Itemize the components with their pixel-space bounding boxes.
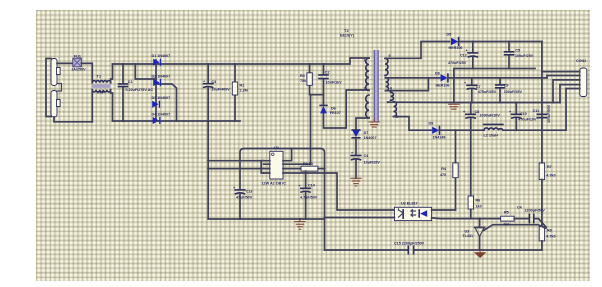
- svg-text:C7: C7: [476, 85, 481, 89]
- svg-text:470uF/25V: 470uF/25V: [478, 90, 497, 94]
- svg-text:U1: U1: [274, 145, 280, 150]
- svg-text:D7: D7: [364, 131, 369, 135]
- svg-text:R3: R3: [300, 74, 305, 78]
- svg-text:D9: D9: [429, 121, 434, 125]
- svg-text:C3: C3: [212, 80, 217, 84]
- svg-text:R7: R7: [547, 165, 552, 169]
- svg-text:EE19(Y): EE19(Y): [340, 34, 355, 38]
- svg-text:4.7uF/50V: 4.7uF/50V: [300, 196, 318, 200]
- svg-text:+: +: [509, 110, 511, 114]
- svg-text:D2 1N4007: D2 1N4007: [152, 74, 171, 78]
- svg-text:R2 10: R2 10: [303, 162, 313, 166]
- svg-text:+: +: [466, 49, 468, 53]
- svg-text:U2 EL817: U2 EL817: [401, 201, 418, 205]
- svg-text:1N4148: 1N4148: [433, 135, 446, 139]
- svg-text:+: +: [463, 110, 465, 114]
- svg-text:+: +: [203, 79, 205, 83]
- svg-text:1: 1: [364, 59, 366, 63]
- svg-text:C14: C14: [308, 183, 316, 187]
- svg-text:C5: C5: [515, 48, 520, 52]
- svg-text:+: +: [233, 186, 235, 190]
- svg-text:R6: R6: [476, 199, 481, 203]
- svg-text:1k0: 1k0: [476, 205, 482, 209]
- svg-text:100uF/25V: 100uF/25V: [515, 54, 534, 58]
- svg-text:C11: C11: [533, 109, 540, 113]
- svg-text:C9: C9: [504, 84, 509, 88]
- svg-text:TL431: TL431: [462, 234, 473, 238]
- svg-text:D6: D6: [331, 107, 336, 111]
- svg-text:10nF/1kV: 10nF/1kV: [326, 80, 343, 84]
- svg-text:10uF/25V: 10uF/25V: [364, 161, 381, 165]
- svg-text:C12: C12: [460, 54, 467, 58]
- svg-text:HER106: HER106: [436, 83, 450, 87]
- svg-text:D8: D8: [435, 71, 440, 75]
- svg-text:FR107: FR107: [330, 111, 341, 115]
- svg-text:C4: C4: [364, 154, 370, 158]
- svg-text:75k: 75k: [300, 79, 307, 83]
- svg-text:T1: T1: [96, 74, 101, 79]
- svg-text:FU1: FU1: [74, 54, 81, 58]
- svg-text:47uF/50V: 47uF/50V: [236, 196, 253, 200]
- svg-text:0.22uF/275V AC: 0.22uF/275V AC: [126, 88, 154, 92]
- svg-text:100uF/25V: 100uF/25V: [504, 90, 523, 94]
- svg-text:D1 1N4007: D1 1N4007: [152, 54, 171, 58]
- svg-text:+: +: [351, 151, 353, 155]
- svg-text:C4: C4: [517, 205, 523, 209]
- svg-text:4.7k0: 4.7k0: [546, 234, 555, 238]
- svg-text:2.2M: 2.2M: [240, 88, 248, 92]
- svg-text:1N4007: 1N4007: [364, 136, 377, 140]
- svg-text:R8: R8: [547, 228, 552, 232]
- svg-text:L2 10uH: L2 10uH: [484, 134, 499, 138]
- svg-text:D4 1N4007: D4 1N4007: [152, 112, 171, 116]
- svg-text:C1: C1: [128, 80, 133, 84]
- svg-text:R1: R1: [240, 83, 245, 87]
- svg-text:9mH: 9mH: [97, 90, 105, 94]
- svg-text:C15 2200pF/250V: C15 2200pF/250V: [394, 241, 425, 245]
- svg-text:U3: U3: [465, 230, 470, 234]
- svg-text:470uF/10V: 470uF/10V: [518, 118, 537, 122]
- svg-text:470uF/25V: 470uF/25V: [448, 61, 467, 65]
- svg-text:C8: C8: [475, 110, 480, 114]
- svg-text:R4: R4: [441, 167, 447, 171]
- svg-text:R5: R5: [504, 210, 509, 214]
- svg-text:470: 470: [440, 173, 446, 177]
- svg-text:C2: C2: [325, 71, 330, 75]
- svg-text:+: +: [299, 184, 301, 188]
- svg-text:12W A2 OB IC: 12W A2 OB IC: [262, 182, 287, 186]
- svg-text:+: +: [464, 81, 466, 85]
- svg-text:T2: T2: [344, 28, 349, 33]
- svg-text:1A/250V: 1A/250V: [71, 67, 86, 71]
- svg-text:2200pF/50V: 2200pF/50V: [525, 208, 546, 212]
- svg-text:C10: C10: [520, 112, 527, 116]
- svg-text:CON2: CON2: [576, 59, 586, 63]
- svg-text:10uF/400V: 10uF/400V: [212, 88, 231, 92]
- svg-text:1000uF/10V: 1000uF/10V: [480, 114, 501, 118]
- svg-text:4.7k0: 4.7k0: [546, 174, 555, 178]
- svg-text:HER106: HER106: [449, 46, 463, 50]
- svg-text:100uF/50V: 100uF/50V: [547, 104, 551, 123]
- svg-text:D3 1N4007: D3 1N4007: [152, 96, 171, 100]
- svg-text:1k0: 1k0: [503, 223, 509, 227]
- svg-text:2: 2: [364, 87, 366, 91]
- svg-text:D5: D5: [447, 32, 452, 36]
- svg-text:C13: C13: [246, 189, 253, 193]
